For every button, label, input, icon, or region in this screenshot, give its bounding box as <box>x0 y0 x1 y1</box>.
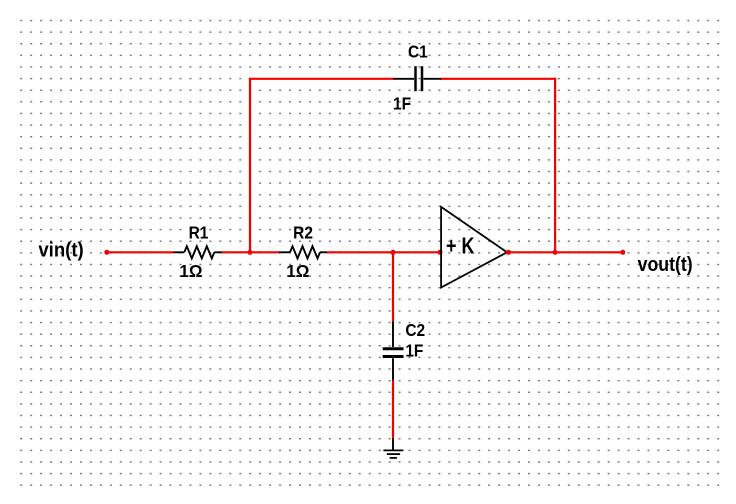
ground <box>383 438 403 458</box>
svg-text:C1: C1 <box>408 41 428 61</box>
capacitor C1 <box>393 66 441 91</box>
svg-text:+ K: + K <box>446 234 474 260</box>
wire: R1 to node A <box>222 251 251 253</box>
wire: node C down to C2 <box>392 252 394 322</box>
node B junction dot <box>553 250 558 255</box>
svg-text:C2: C2 <box>405 320 425 340</box>
wire: node C to op-amp input <box>393 251 440 253</box>
wire: C2 to ground <box>392 381 394 439</box>
wire: top rail left (node A to C1) <box>249 78 394 80</box>
op-amp output terminal dot <box>506 250 511 255</box>
op-amp U1 (buffer, gain K) <box>441 207 507 288</box>
wire: top rail right (C1 to node B) <box>441 78 556 80</box>
svg-text:vout(t): vout(t) <box>638 254 693 276</box>
svg-text:1Ω: 1Ω <box>286 260 309 281</box>
svg-text:1F: 1F <box>393 93 411 113</box>
wire: node B down to output wire <box>554 78 556 254</box>
resistor R1 <box>173 246 221 258</box>
svg-text:R2: R2 <box>293 222 313 242</box>
svg-text:1F: 1F <box>405 340 423 360</box>
wire: node B to vout terminal <box>555 251 623 253</box>
svg-text:R1: R1 <box>189 222 209 242</box>
wire: R2 to node C <box>327 251 393 253</box>
wire: node A up to top rail <box>249 78 251 254</box>
wire: vin terminal to R1 <box>107 251 174 253</box>
svg-text:1Ω: 1Ω <box>179 260 202 281</box>
wire: op-amp output to node B <box>509 251 555 253</box>
capacitor C2 <box>383 322 404 381</box>
svg-text:vin(t): vin(t) <box>38 240 83 262</box>
node C junction dot <box>391 250 396 255</box>
node A junction dot <box>248 250 253 255</box>
wire: node A to R2 <box>250 251 279 253</box>
resistor R2 <box>279 246 327 258</box>
terminal dot vout <box>620 250 625 255</box>
terminal dot vin <box>104 250 109 255</box>
op-amp input terminal dot <box>438 250 443 255</box>
